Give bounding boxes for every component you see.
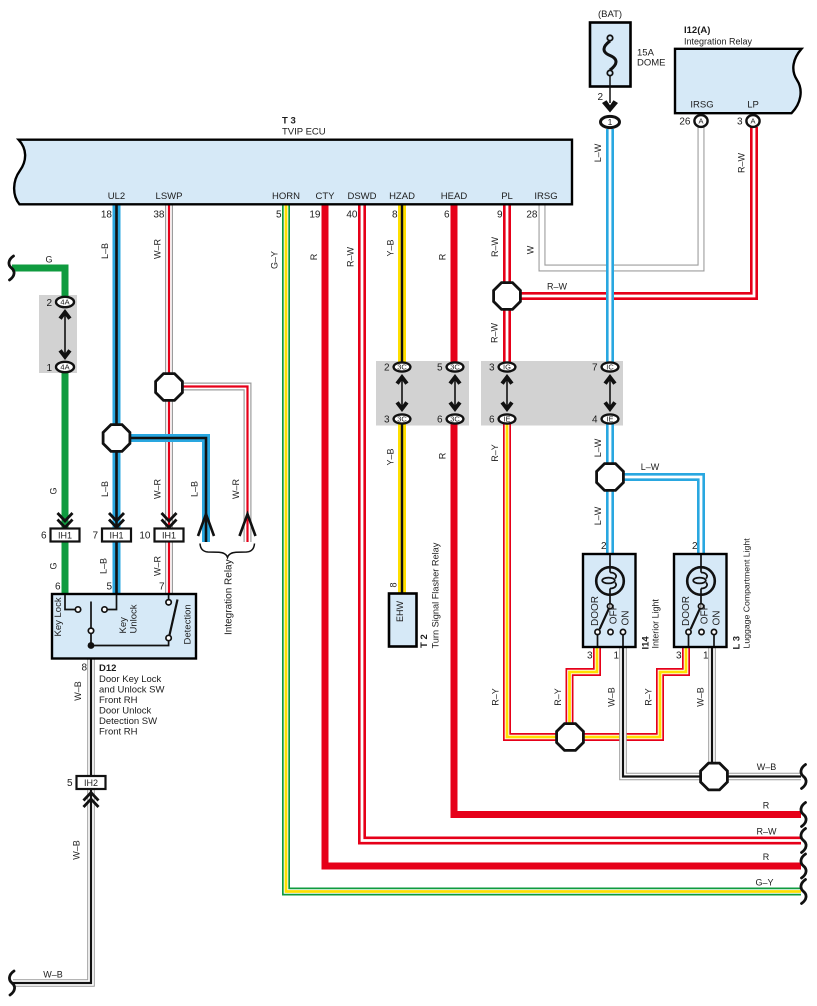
- wire L-W from fuse connector 1 to IC 7: [606, 129, 614, 367]
- svg-text:5: 5: [276, 210, 282, 221]
- EHW T2 turn signal flasher relay box: [389, 594, 417, 647]
- wire R HEAD lower to right break: [454, 419, 801, 815]
- svg-text:9: 9: [497, 210, 503, 221]
- svg-text:R–Y: R–Y: [553, 688, 563, 706]
- svg-text:4A: 4A: [60, 298, 69, 307]
- svg-text:18: 18: [101, 210, 113, 221]
- svg-text:L–B: L–B: [100, 481, 110, 497]
- svg-text:DOME: DOME: [637, 58, 666, 69]
- svg-text:W–B: W–B: [757, 762, 777, 772]
- connector IE lower: [499, 414, 516, 423]
- ECU terminal names: [108, 191, 558, 202]
- connector 3C upper: [394, 362, 411, 371]
- wire L-W branch to L3 pin 2: [610, 477, 701, 555]
- svg-text:6: 6: [437, 415, 443, 426]
- svg-text:R–Y: R–Y: [490, 444, 500, 462]
- svg-text:W–R: W–R: [153, 479, 163, 500]
- svg-text:Unlock: Unlock: [128, 604, 139, 633]
- svg-text:3: 3: [737, 117, 743, 128]
- connector IH1 on G: [51, 529, 80, 542]
- connector IH1 on W-R: [155, 529, 184, 542]
- svg-text:5: 5: [67, 778, 73, 789]
- label D12 caption: [99, 663, 165, 738]
- svg-text:IE: IE: [503, 415, 510, 424]
- svg-text:LSWP: LSWP: [156, 191, 183, 202]
- svg-text:ON: ON: [712, 611, 723, 626]
- break symbol G left: [9, 256, 14, 280]
- arrow pair at x=507: [501, 374, 514, 412]
- connector 3C upper: [447, 362, 464, 371]
- svg-text:L–B: L–B: [100, 243, 110, 259]
- D12 key lock switch: [65, 595, 94, 646]
- D12 key unlock switch: [102, 595, 117, 612]
- svg-text:7: 7: [159, 582, 165, 593]
- svg-text:IH1: IH1: [162, 530, 176, 540]
- svg-text:3C: 3C: [397, 363, 407, 372]
- wire R-W from junction to Integration Relay LP 3: [507, 127, 754, 296]
- wire R-Y from IE 6 to junction: [507, 419, 570, 737]
- svg-text:7: 7: [92, 531, 98, 542]
- svg-text:Y–B: Y–B: [386, 239, 396, 256]
- svg-text:W–R: W–R: [153, 556, 163, 577]
- D12 common node: [88, 641, 169, 649]
- svg-text:1: 1: [608, 117, 613, 127]
- wire W-B from L3 pin 1 through junction to right break: [712, 646, 801, 777]
- svg-text:L–B: L–B: [99, 558, 109, 574]
- svg-text:R–Y: R–Y: [491, 688, 501, 706]
- svg-text:8: 8: [392, 210, 398, 221]
- svg-text:HZAD: HZAD: [389, 191, 415, 202]
- junction junction on L-W: [597, 464, 624, 491]
- svg-text:R–W: R–W: [757, 827, 778, 837]
- wire G-Y HORN pin 5 to right break: [286, 203, 801, 892]
- svg-text:W–B: W–B: [72, 840, 82, 860]
- svg-text:3C: 3C: [450, 415, 460, 424]
- D12 door key lock switch box: [52, 594, 196, 659]
- svg-text:PL: PL: [501, 191, 513, 202]
- svg-text:2: 2: [692, 541, 698, 552]
- svg-text:Turn Signal Flasher Relay: Turn Signal Flasher Relay: [431, 542, 441, 648]
- svg-text:CTY: CTY: [316, 191, 336, 202]
- break symbol W-B bottom left: [9, 971, 14, 995]
- arrow into IH1 on W-R: [162, 513, 177, 528]
- wire R-Y junction to L3 pin 3: [570, 646, 686, 737]
- I14 bulb: [596, 555, 624, 604]
- svg-text:HORN: HORN: [272, 191, 300, 202]
- Integration Relay I12(A) box: [675, 49, 802, 113]
- svg-text:Integration Relay: Integration Relay: [224, 559, 235, 635]
- svg-text:Interior Light: Interior Light: [651, 599, 661, 649]
- svg-text:1: 1: [703, 651, 709, 662]
- svg-text:OFF: OFF: [608, 604, 619, 624]
- svg-text:26: 26: [679, 117, 691, 128]
- svg-text:R: R: [309, 253, 319, 260]
- connector band 4A: [39, 295, 77, 373]
- svg-text:(BAT): (BAT): [598, 9, 622, 20]
- wire G wire from break to D12 pin 6 upper: [12, 268, 65, 302]
- svg-text:IH1: IH1: [58, 530, 72, 540]
- svg-text:6: 6: [55, 582, 61, 593]
- wire R-W DSWD pin 40 to right break: [362, 203, 801, 841]
- svg-text:and Unlock SW: and Unlock SW: [99, 685, 165, 696]
- svg-text:D12: D12: [99, 663, 116, 674]
- arrow pair at x=455: [449, 374, 462, 412]
- svg-text:8: 8: [389, 582, 399, 587]
- svg-text:R–W: R–W: [346, 246, 356, 267]
- arrow into connector 1: [602, 100, 618, 112]
- arrow pair at x=402: [396, 374, 409, 412]
- svg-text:TVIP ECU: TVIP ECU: [282, 127, 326, 138]
- svg-text:Front RH: Front RH: [99, 695, 138, 706]
- I14 contact labels: [590, 596, 631, 626]
- svg-text:R: R: [438, 253, 448, 260]
- svg-text:5: 5: [106, 582, 112, 593]
- svg-text:2: 2: [601, 541, 607, 552]
- connector IH2: [77, 776, 106, 789]
- wire L-W from IE 4 to I14 pin 2: [606, 419, 614, 555]
- svg-text:Door Unlock: Door Unlock: [99, 706, 152, 717]
- connector 3C lower: [394, 414, 411, 423]
- svg-text:1: 1: [46, 363, 52, 374]
- svg-text:DOOR: DOOR: [590, 596, 601, 626]
- arrow into IH1 on G: [58, 513, 73, 528]
- svg-text:3: 3: [489, 363, 495, 374]
- break symbol R-W right: [801, 829, 806, 853]
- svg-text:G: G: [49, 487, 59, 494]
- svg-text:G: G: [45, 255, 52, 265]
- connector 4A upper: [56, 297, 74, 307]
- svg-text:LP: LP: [747, 100, 759, 111]
- svg-text:1: 1: [613, 651, 619, 662]
- svg-text:I12(A): I12(A): [684, 25, 710, 36]
- svg-text:2: 2: [384, 363, 390, 374]
- svg-text:L–W: L–W: [641, 462, 660, 472]
- svg-text:IG: IG: [503, 363, 511, 372]
- svg-text:6: 6: [489, 415, 495, 426]
- svg-text:DOOR: DOOR: [681, 596, 692, 626]
- L3 contact labels: [681, 596, 722, 626]
- svg-text:4: 4: [592, 415, 598, 426]
- svg-text:IE: IE: [606, 415, 613, 424]
- svg-text:Luggage Compartment Light: Luggage Compartment Light: [742, 538, 752, 649]
- svg-text:IH2: IH2: [84, 778, 98, 788]
- arrow to integration relay W-R: [240, 514, 256, 536]
- brace integration relay: [200, 544, 255, 558]
- wire W-R branch to Integration Relay: [169, 387, 248, 543]
- break symbol R right 2: [801, 854, 806, 878]
- svg-text:L–W: L–W: [593, 438, 603, 457]
- wire W from TVIP ECU IRSG 28 to Integration Relay IRSG 26: [542, 127, 701, 268]
- svg-text:EHW: EHW: [395, 600, 405, 622]
- connector relay pin A LP: [746, 115, 759, 127]
- junction junction on R-Y: [557, 724, 584, 751]
- svg-text:IC: IC: [606, 363, 614, 372]
- connector IE lower: [602, 414, 619, 423]
- break symbol R right: [801, 803, 806, 827]
- svg-text:UL2: UL2: [108, 191, 125, 202]
- svg-text:IRSG: IRSG: [534, 191, 557, 202]
- junction junction on W-R: [156, 374, 183, 401]
- svg-text:2: 2: [46, 298, 52, 309]
- connector relay pin A IRSG: [694, 115, 707, 127]
- break symbol G-Y right: [801, 880, 806, 904]
- ECU pin numbers: [101, 210, 538, 221]
- L3 door switch: [686, 604, 717, 646]
- arrow 4A pair: [59, 309, 72, 360]
- svg-text:3C: 3C: [397, 415, 407, 424]
- junction junction on R-W PL: [494, 283, 521, 310]
- arrow into IH1 on L-B: [109, 513, 124, 528]
- svg-text:R–W: R–W: [490, 322, 500, 343]
- fuse 15A DOME box: [590, 23, 631, 104]
- svg-text:3: 3: [676, 651, 682, 662]
- svg-text:W–R: W–R: [153, 239, 163, 260]
- svg-text:R–W: R–W: [737, 152, 747, 173]
- D12 detection switch: [166, 595, 178, 641]
- svg-text:OFF: OFF: [699, 604, 710, 624]
- svg-text:Front RH: Front RH: [99, 727, 138, 738]
- wire W-B from I14 pin 1 to junction: [623, 646, 701, 777]
- svg-text:Y–B: Y–B: [386, 448, 396, 465]
- svg-text:R: R: [438, 452, 448, 459]
- connector IH1 on L-B: [102, 529, 131, 542]
- wire R-Y junction to I14 pin 3: [570, 646, 598, 731]
- svg-text:IH1: IH1: [109, 530, 123, 540]
- svg-text:6: 6: [444, 210, 450, 221]
- svg-text:W–B: W–B: [73, 681, 83, 701]
- svg-text:T 3: T 3: [282, 116, 296, 127]
- wire W-B from D12 pin 8 to bottom break: [13, 659, 91, 984]
- svg-text:Key Lock: Key Lock: [53, 597, 64, 636]
- svg-text:3C: 3C: [450, 363, 460, 372]
- svg-text:10: 10: [139, 531, 151, 542]
- svg-text:HEAD: HEAD: [441, 191, 468, 202]
- break symbol W-B right: [801, 765, 806, 789]
- connector fuse connector 1: [601, 116, 620, 127]
- svg-text:W–B: W–B: [696, 687, 706, 707]
- svg-text:T 2: T 2: [419, 634, 430, 648]
- arrow into IH2: [84, 793, 99, 808]
- svg-text:W–B: W–B: [607, 687, 617, 707]
- connector IG upper: [499, 362, 516, 371]
- I14 door switch: [595, 604, 626, 646]
- svg-text:R: R: [763, 852, 770, 862]
- connector 4A lower: [56, 362, 74, 372]
- svg-text:DSWD: DSWD: [347, 191, 376, 202]
- svg-text:2: 2: [597, 92, 603, 103]
- wire G wire lower segment: [62, 367, 69, 594]
- svg-text:W–B: W–B: [43, 970, 63, 980]
- ECU T3 box: [14, 140, 572, 205]
- svg-text:Detection SW: Detection SW: [99, 716, 157, 727]
- svg-text:40: 40: [346, 210, 358, 221]
- wire L-B UL2 main from pin 18 to D12 pin 5: [113, 203, 121, 594]
- L3 luggage compartment light box: [674, 554, 727, 647]
- wire R HEAD pin 6 upper: [451, 203, 458, 367]
- wire Y-B HZAD lower to EHW: [398, 419, 406, 594]
- svg-text:3: 3: [587, 651, 593, 662]
- svg-text:5: 5: [437, 363, 443, 374]
- svg-text:4A: 4A: [60, 363, 69, 372]
- svg-text:ON: ON: [621, 611, 632, 626]
- connector 3C lower: [447, 414, 464, 423]
- I14 interior light box: [583, 554, 636, 647]
- svg-text:3: 3: [384, 415, 390, 426]
- connector IC upper: [602, 362, 619, 371]
- svg-text:G–Y: G–Y: [270, 251, 280, 269]
- svg-text:6: 6: [41, 531, 47, 542]
- svg-text:L–W: L–W: [593, 143, 603, 162]
- svg-text:19: 19: [309, 210, 321, 221]
- svg-text:28: 28: [526, 210, 538, 221]
- svg-text:A: A: [750, 117, 755, 126]
- junction junction on W-B: [701, 763, 728, 790]
- svg-text:Door Key Lock: Door Key Lock: [99, 674, 162, 685]
- svg-text:R–W: R–W: [547, 282, 568, 292]
- svg-text:Integration Relay: Integration Relay: [684, 37, 753, 47]
- junction junction on L-B: [103, 425, 130, 452]
- svg-text:W–R: W–R: [231, 479, 241, 500]
- arrow pair at x=610: [604, 374, 617, 412]
- wire R CTY pin 19 to right break: [325, 203, 801, 866]
- svg-text:IRSG: IRSG: [690, 100, 713, 111]
- svg-text:L–W: L–W: [593, 506, 603, 525]
- wire L-B branch to Integration Relay: [117, 438, 207, 542]
- arrow to integration relay L-B: [198, 514, 214, 536]
- svg-text:R–W: R–W: [490, 236, 500, 257]
- svg-text:A: A: [698, 117, 703, 126]
- wire R-W PL pin 9 upper: [503, 203, 511, 367]
- L3 bulb: [687, 555, 715, 604]
- connector band 3C: [376, 361, 469, 426]
- connector band IG-IE / IC-IE: [481, 361, 623, 426]
- svg-text:G–Y: G–Y: [755, 878, 773, 888]
- svg-text:R: R: [763, 801, 770, 811]
- svg-text:8: 8: [81, 663, 87, 674]
- wire W-R LSWP main from pin 38 to D12 pin 7: [165, 203, 173, 594]
- svg-text:Detection: Detection: [183, 604, 194, 644]
- svg-text:R–Y: R–Y: [644, 688, 654, 706]
- svg-text:7: 7: [592, 363, 598, 374]
- svg-text:W: W: [526, 245, 536, 254]
- wire Y-B HZAD pin 8 upper: [398, 203, 406, 367]
- svg-text:38: 38: [153, 210, 165, 221]
- svg-text:L–B: L–B: [190, 481, 200, 497]
- svg-text:G: G: [49, 562, 59, 569]
